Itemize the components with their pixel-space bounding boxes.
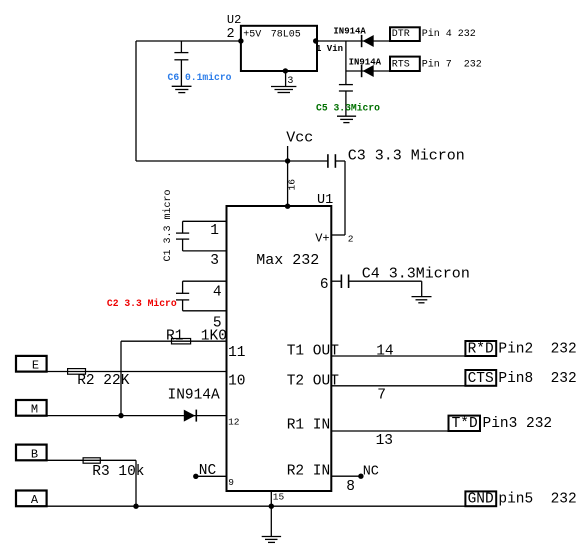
svg-text:C6 0.1micro: C6 0.1micro: [168, 72, 232, 83]
svg-text:1 Vin: 1 Vin: [316, 44, 343, 54]
svg-text:10: 10: [228, 374, 245, 390]
svg-text:C1 3.3 micro: C1 3.3 micro: [162, 189, 174, 261]
svg-text:C5 3.3Micro: C5 3.3Micro: [316, 102, 380, 113]
svg-text:R1 IN: R1 IN: [287, 418, 331, 434]
svg-text:T1 OUT: T1 OUT: [287, 344, 340, 360]
svg-text:2: 2: [348, 234, 354, 245]
svg-text:B: B: [31, 447, 38, 461]
svg-text:T2 OUT: T2 OUT: [287, 374, 340, 390]
svg-text:12: 12: [228, 417, 240, 428]
svg-text:7: 7: [377, 388, 386, 404]
svg-text:R3 10k: R3 10k: [92, 464, 144, 480]
svg-text:Max 232: Max 232: [256, 252, 319, 269]
svg-text:GND: GND: [468, 492, 494, 508]
svg-text:Pin 4 232: Pin 4 232: [422, 28, 476, 40]
svg-text:IN914A: IN914A: [333, 27, 366, 37]
svg-text:Pin3 232: Pin3 232: [483, 416, 553, 432]
svg-text:2: 2: [227, 27, 235, 42]
svg-text:NC: NC: [363, 464, 379, 479]
svg-text:8: 8: [346, 479, 355, 495]
svg-text:R1 1K0: R1 1K0: [166, 329, 227, 345]
svg-text:16: 16: [286, 179, 297, 191]
svg-text:Pin2 232: Pin2 232: [498, 341, 576, 357]
svg-text:C4 3.3Micron: C4 3.3Micron: [362, 266, 470, 283]
svg-text:DTR: DTR: [392, 29, 410, 40]
svg-text:3: 3: [287, 76, 293, 87]
svg-text:E: E: [32, 359, 39, 373]
svg-text:Vcc: Vcc: [286, 130, 313, 147]
svg-text:Pin 7 232: Pin 7 232: [422, 59, 482, 71]
svg-text:Pin8 232: Pin8 232: [498, 371, 576, 387]
svg-text:R2 IN: R2 IN: [287, 463, 331, 479]
svg-text:NC: NC: [199, 463, 217, 479]
svg-text:6: 6: [320, 277, 329, 293]
svg-text:+5V: +5V: [243, 29, 261, 40]
svg-text:11: 11: [228, 345, 245, 361]
svg-text:1: 1: [210, 223, 219, 239]
svg-text:R2 22K: R2 22K: [77, 373, 130, 389]
svg-text:14: 14: [376, 344, 393, 360]
svg-text:R*D: R*D: [468, 341, 494, 357]
svg-text:15: 15: [273, 491, 285, 502]
svg-text:T*D: T*D: [452, 416, 478, 432]
svg-text:IN914A: IN914A: [168, 388, 221, 404]
svg-text:78L05: 78L05: [271, 29, 301, 40]
svg-text:pin5 232: pin5 232: [498, 492, 576, 508]
svg-text:U2: U2: [227, 13, 241, 27]
svg-text:V+: V+: [315, 231, 329, 245]
svg-text:U1: U1: [317, 193, 333, 208]
svg-text:C3 3.3 Micron: C3 3.3 Micron: [348, 148, 465, 165]
svg-text:9: 9: [228, 477, 234, 488]
svg-text:CTS: CTS: [468, 371, 494, 387]
svg-text:4: 4: [213, 284, 222, 300]
svg-text:M: M: [31, 403, 38, 417]
svg-text:RTS: RTS: [392, 60, 410, 71]
svg-text:13: 13: [376, 433, 393, 449]
svg-text:C2 3.3 Micro: C2 3.3 Micro: [107, 298, 177, 309]
svg-text:IN914A: IN914A: [349, 58, 382, 68]
svg-text:A: A: [31, 493, 39, 507]
svg-text:3: 3: [210, 253, 219, 269]
